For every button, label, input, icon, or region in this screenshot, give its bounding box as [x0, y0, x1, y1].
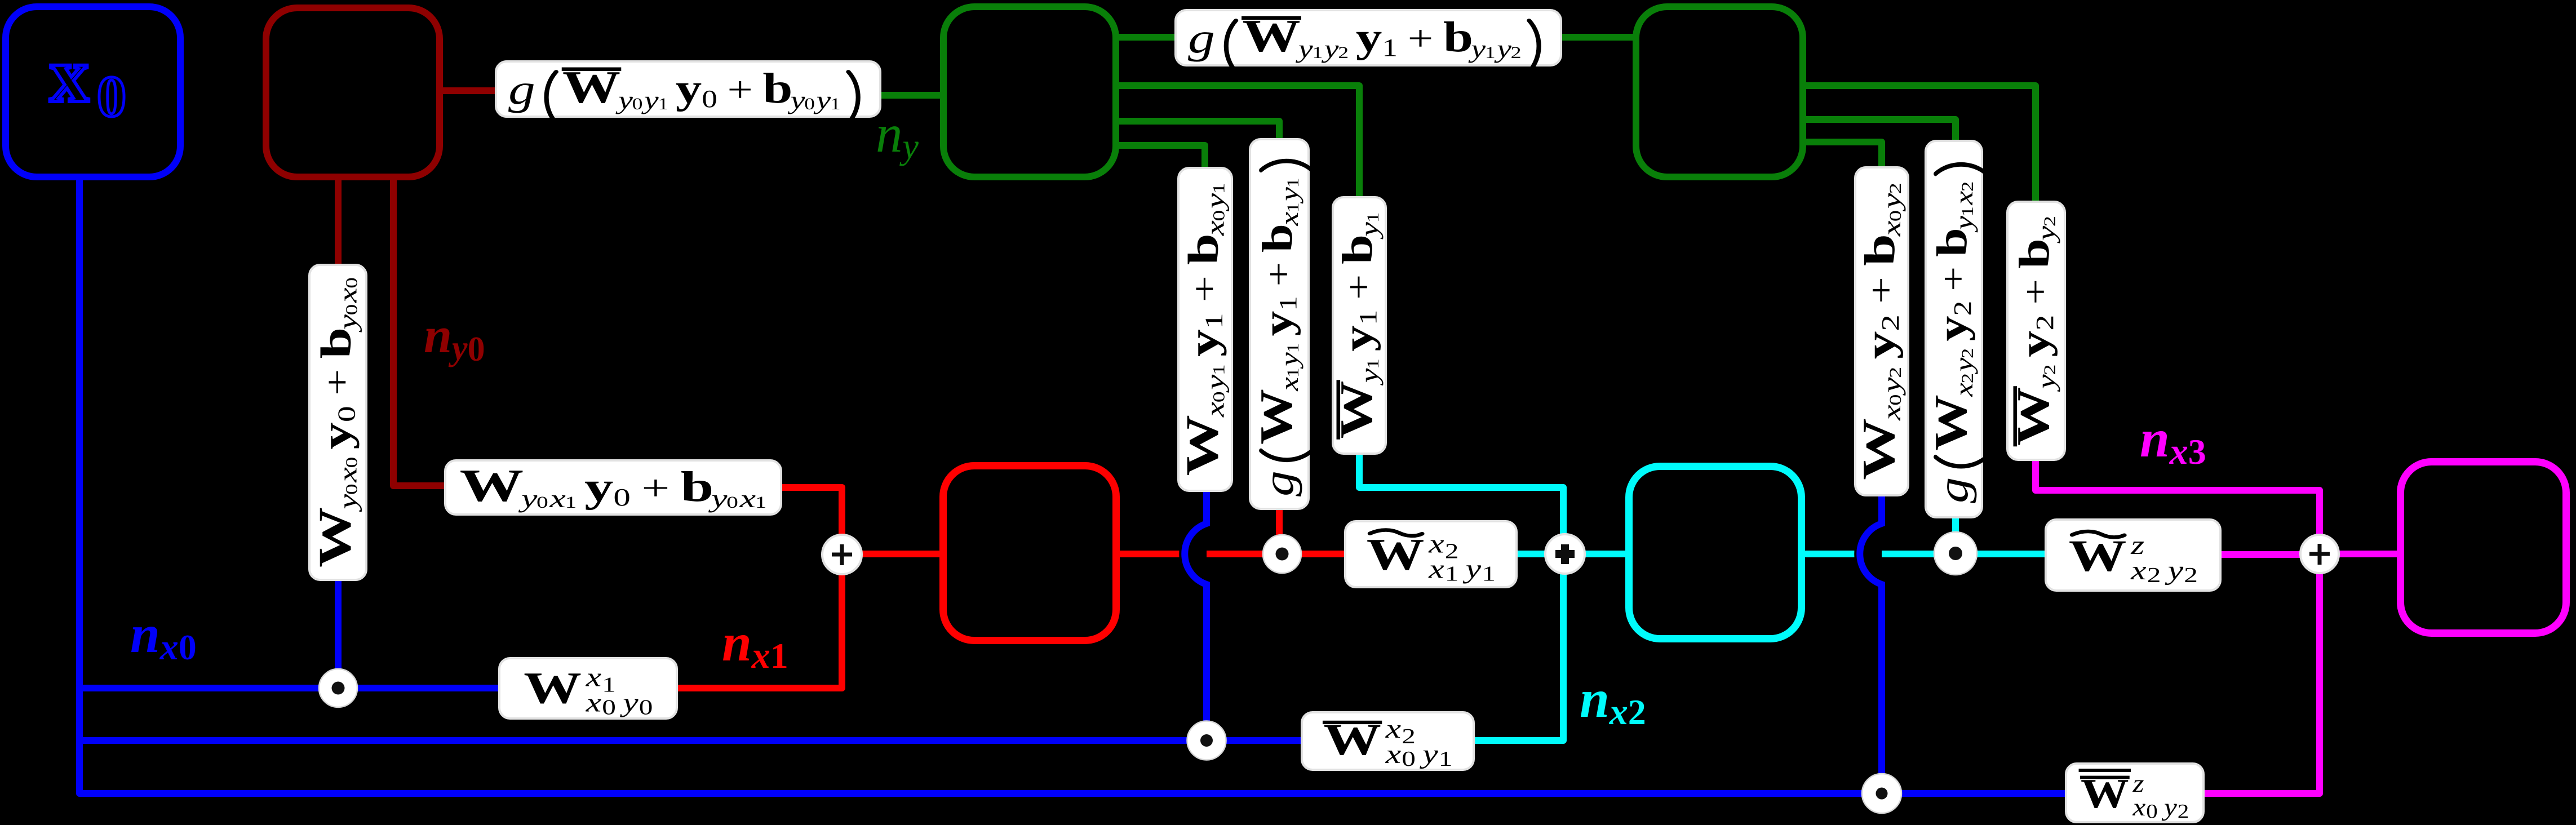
- svg-text:1: 1: [1200, 313, 1228, 329]
- svg-text:y: y: [2032, 374, 2061, 392]
- svg-text:2: 2: [2178, 801, 2189, 823]
- node magenta box (n_x3 layer): [2401, 462, 2566, 633]
- svg-text:y: y: [1950, 216, 1979, 233]
- svg-text:+: +: [641, 468, 670, 508]
- svg-text:y: y: [2162, 793, 2178, 821]
- label Wtilde^z_x2y2: [2046, 520, 2220, 591]
- svg-text:y: y: [1355, 368, 1384, 386]
- node green box 1 (n_y layer): [943, 7, 1116, 177]
- svg-text:+: +: [1338, 274, 1378, 300]
- svg-text:1: 1: [1284, 367, 1302, 378]
- svg-text:b: b: [1180, 233, 1227, 265]
- svg-text:W: W: [524, 663, 582, 713]
- svg-text:y: y: [708, 484, 728, 513]
- svg-text:1: 1: [602, 673, 616, 697]
- svg-text:y: y: [518, 484, 537, 513]
- svg-text:y: y: [1877, 193, 1906, 212]
- svg-text:0: 0: [537, 493, 548, 512]
- svg-text:y: y: [1355, 221, 1384, 239]
- svg-text:2: 2: [2147, 563, 2161, 587]
- wire green box2 to vertical label g(W_x2y2): [1803, 119, 1956, 146]
- svg-text:1: 1: [1209, 364, 1228, 375]
- svg-text:b: b: [1443, 13, 1473, 60]
- svg-text:W: W: [1251, 389, 1302, 445]
- operator plus 1 (red sum): [822, 535, 862, 574]
- svg-text:1: 1: [1312, 44, 1323, 63]
- wire magenta plus 3 to magenta box: [2320, 551, 2400, 557]
- svg-text:n: n: [722, 613, 752, 672]
- svg-text:+: +: [1861, 277, 1901, 304]
- svg-text:y: y: [1462, 554, 1482, 584]
- svg-text:n: n: [424, 308, 452, 363]
- svg-text:x: x: [1275, 377, 1304, 392]
- svg-text:1: 1: [1485, 44, 1496, 63]
- svg-text:x: x: [1275, 212, 1304, 227]
- wire cyan from label g(W_x2y2) down to dot-op cyan: [1952, 508, 1959, 554]
- wire green box1 to vertical label g(W_x1y1): [1116, 121, 1279, 141]
- wire blue branch to dot product 2 (y=1314): [79, 737, 1304, 744]
- label g(W_x1y1 y_1 + b_x1y1) (vertical): [1250, 139, 1309, 509]
- svg-text:0: 0: [342, 484, 361, 495]
- label W_x0y1 y_1 + b_x0y1 (vertical): [1178, 168, 1232, 491]
- svg-text:+: +: [1259, 262, 1298, 286]
- svg-text:b: b: [1333, 234, 1381, 264]
- svg-text:y: y: [1295, 35, 1313, 64]
- svg-text:x: x: [2132, 793, 2145, 821]
- svg-text:1: 1: [1482, 562, 1496, 586]
- wire magenta label Wtilde_z to plus 3: [2218, 551, 2320, 558]
- svg-text:b: b: [1254, 224, 1301, 252]
- wire red n_x1 from label W_x0y0 to plus 1 bottom: [675, 572, 842, 688]
- svg-text:y: y: [584, 464, 613, 511]
- svg-text:0: 0: [726, 493, 738, 512]
- node x0 input box (blue): [6, 7, 180, 177]
- svg-text:1: 1: [770, 636, 788, 676]
- svg-text:y: y: [676, 66, 702, 112]
- label olW_y2 y_2 + b_y2 (vertical): [2007, 202, 2065, 460]
- svg-text:b: b: [762, 64, 792, 112]
- wire green label g1 to green box 1: [878, 92, 947, 99]
- svg-text:3: 3: [2188, 432, 2206, 472]
- svg-text:x: x: [1950, 383, 1979, 397]
- operator dot 1 (blue hadamard): [319, 669, 357, 707]
- svg-text:x: x: [333, 467, 362, 483]
- svg-text:1: 1: [1439, 747, 1453, 770]
- svg-text:1: 1: [1364, 212, 1382, 223]
- svg-text:x: x: [751, 635, 770, 676]
- svg-text:x: x: [1609, 691, 1628, 733]
- wire magenta n_x3 from label Wbarbar_y2 to plus 3 top: [2036, 458, 2320, 554]
- svg-text:2: 2: [1958, 373, 1977, 383]
- svg-text:2: 2: [2184, 563, 2198, 587]
- svg-text:2: 2: [1886, 183, 1905, 194]
- svg-text:n: n: [876, 104, 903, 163]
- wire blue from label W_y0x0 down to dot 1: [335, 578, 342, 688]
- svg-text:y: y: [1950, 357, 1979, 375]
- wire green label g2 to green box 2: [1559, 34, 1636, 41]
- svg-text:y: y: [1321, 35, 1339, 64]
- svg-text:0: 0: [804, 95, 815, 113]
- svg-text:W: W: [309, 507, 361, 567]
- svg-text:y: y: [1275, 187, 1304, 204]
- wire green box2 to vertical label W_x0y2: [1803, 142, 1882, 170]
- svg-text:n: n: [1580, 669, 1610, 729]
- label Wbarbar^z_x0y2: [2066, 764, 2203, 822]
- svg-text:0: 0: [333, 406, 361, 422]
- node red box (n_x1 layer): [943, 466, 1116, 641]
- svg-text:b: b: [1856, 234, 1904, 266]
- svg-text:y: y: [1201, 193, 1230, 212]
- label W^x1_x0y0: [499, 658, 677, 718]
- svg-text:x: x: [2169, 431, 2188, 472]
- svg-text:0: 0: [342, 457, 361, 468]
- svg-text:y: y: [333, 494, 362, 512]
- svg-text:y: y: [2032, 225, 2061, 243]
- svg-text:x: x: [50, 32, 89, 119]
- label W_y0x1 y_0 + b_y0x1: [445, 460, 781, 514]
- svg-text:b: b: [2010, 238, 2058, 269]
- svg-text:1: 1: [658, 95, 668, 113]
- svg-text:2: 2: [1511, 44, 1522, 63]
- svg-text:+: +: [1408, 18, 1433, 58]
- svg-text:2: 2: [2031, 315, 2059, 331]
- svg-text:0: 0: [468, 330, 485, 369]
- label Wtilde^x2_x1y1: [1345, 521, 1517, 587]
- svg-text:y: y: [1254, 311, 1301, 336]
- wire blue n_x0 main vertical + bottom horizontal: [79, 179, 2067, 793]
- svg-text:y: y: [787, 86, 805, 114]
- svg-text:2: 2: [1958, 181, 1977, 192]
- svg-text:2: 2: [2041, 216, 2059, 227]
- operator dot cyan (hadamard): [1934, 532, 1977, 575]
- svg-text:W: W: [1176, 415, 1227, 476]
- svg-text:y: y: [620, 687, 639, 717]
- svg-text:y: y: [1420, 739, 1439, 769]
- svg-text:1: 1: [1284, 178, 1302, 188]
- svg-text:y: y: [899, 126, 919, 166]
- svg-text:x: x: [739, 484, 756, 513]
- svg-text:2: 2: [1877, 314, 1904, 331]
- node cyan box (n_x2 layer): [1629, 467, 1802, 639]
- svg-text:0: 0: [342, 277, 361, 289]
- svg-text:0: 0: [97, 64, 126, 129]
- label W_y0x0 y_0 + b_y0x0 (vertical): [309, 265, 366, 580]
- svg-text:x: x: [1201, 402, 1230, 418]
- svg-text:W: W: [1925, 394, 1976, 451]
- label g(olW_y1y2 y_1 + b_y1y2): [1176, 10, 1561, 65]
- svg-text:2: 2: [1958, 348, 1977, 358]
- svg-text:y: y: [313, 422, 359, 449]
- svg-text:0: 0: [702, 85, 717, 112]
- svg-text:0: 0: [342, 304, 361, 316]
- svg-text:1: 1: [1354, 310, 1381, 326]
- svg-text:0: 0: [1886, 394, 1905, 406]
- svg-text:W: W: [1853, 418, 1904, 480]
- svg-text:x: x: [1950, 190, 1979, 205]
- svg-text:x: x: [549, 484, 566, 513]
- label olW_y1 y_1 + b_y1 (vertical): [1333, 197, 1386, 454]
- svg-text:x: x: [1877, 405, 1906, 421]
- svg-text:g: g: [1255, 471, 1302, 496]
- wire red plus1 to red box: [842, 551, 943, 557]
- wire cyan box to dot-op cyan and label Wtilde_z: [1802, 551, 2048, 557]
- wire cyan from label Wbarbar_y1 to plus 2 top: [1359, 451, 1563, 554]
- operator dot 2 (blue hadamard): [1187, 721, 1226, 760]
- wire red box to dot-op and label Wtilde_x1y1: [1116, 551, 1347, 557]
- svg-text:1: 1: [1209, 183, 1228, 194]
- svg-text:1: 1: [1382, 33, 1398, 61]
- operator plus 3 (magenta sum): [2300, 535, 2339, 573]
- svg-text:y: y: [1356, 15, 1382, 61]
- label g(olW_y0y1 y_0 + b_y0y1): [496, 61, 880, 117]
- wire green box1 to vertical label W_x0y1: [1116, 145, 1205, 170]
- svg-text:b: b: [681, 463, 714, 510]
- svg-text:2: 2: [2041, 364, 2059, 375]
- svg-text:1: 1: [1274, 296, 1302, 311]
- svg-text:y: y: [333, 314, 362, 333]
- svg-text:0: 0: [639, 695, 653, 719]
- svg-text:0: 0: [1209, 391, 1228, 402]
- svg-text:0: 0: [2146, 801, 2158, 823]
- svg-text:+: +: [727, 69, 752, 109]
- svg-text:y: y: [2165, 556, 2184, 586]
- svg-text:y: y: [2012, 331, 2058, 357]
- wire blue from label W_x0y1 down with hop over red to dot 2: [1185, 524, 1207, 584]
- svg-text:1: 1: [830, 95, 841, 113]
- svg-text:1: 1: [755, 493, 767, 512]
- operator dot 3 (blue hadamard): [1862, 774, 1901, 813]
- wire blue branch to dot product 1 (y=1221): [79, 685, 502, 691]
- svg-text:+: +: [1185, 276, 1225, 303]
- label W_x0y2 y_2 + b_x0y2 (vertical): [1855, 167, 1908, 495]
- label g(W_x2y2 y_2 + b_y1x2) (vertical): [1926, 141, 1982, 517]
- svg-text:0: 0: [613, 484, 631, 511]
- wire magenta from label Wbar_z_x0y2 to plus 3 bottom: [2201, 554, 2320, 793]
- svg-text:W: W: [460, 460, 524, 511]
- svg-text:y: y: [1468, 35, 1486, 64]
- svg-text:g: g: [508, 65, 535, 113]
- svg-text:0: 0: [602, 695, 616, 719]
- svg-text:y: y: [1335, 325, 1381, 351]
- svg-text:y: y: [813, 86, 831, 114]
- svg-text:0: 0: [1886, 210, 1905, 221]
- svg-text:+: +: [2015, 279, 2055, 305]
- operator dot red (hadamard): [1263, 535, 1301, 573]
- svg-text:x: x: [1877, 221, 1906, 237]
- wire green box1 to label g2: [1116, 34, 1178, 41]
- svg-text:y: y: [1181, 329, 1227, 357]
- svg-text:1: 1: [1958, 206, 1977, 216]
- svg-text:y: y: [1877, 377, 1906, 396]
- svg-text:0: 0: [632, 95, 643, 113]
- svg-text:n: n: [130, 604, 160, 664]
- wire darkred n_y0 down and right to label W_y0x1: [393, 177, 447, 486]
- operator plus 2 (cyan sum, bold): [1545, 534, 1585, 574]
- svg-text:1: 1: [1284, 343, 1302, 353]
- svg-text:x: x: [159, 627, 179, 668]
- svg-text:2: 2: [1886, 367, 1905, 378]
- wire green box1 to vertical label Wbar_y1: [1116, 86, 1359, 199]
- svg-text:b: b: [1929, 228, 1976, 256]
- svg-text:1: 1: [565, 493, 577, 512]
- wire red label W_y0x1 to plus 1 top: [779, 487, 842, 536]
- svg-text:x: x: [333, 287, 362, 303]
- svg-text:0: 0: [1402, 747, 1416, 770]
- svg-text:+: +: [1933, 267, 1973, 291]
- svg-text:2: 2: [1948, 301, 1976, 316]
- svg-text:x: x: [2130, 556, 2146, 586]
- svg-text:x: x: [1428, 554, 1444, 584]
- svg-text:g: g: [1930, 477, 1978, 503]
- wire darkred box to label g1: [441, 87, 498, 94]
- svg-text:2: 2: [1338, 44, 1349, 63]
- svg-text:n: n: [2140, 409, 2170, 468]
- wire darkred box down to vertical label W_y0x0: [335, 177, 342, 267]
- svg-text:y: y: [1275, 352, 1304, 369]
- svg-text:y: y: [1857, 331, 1903, 360]
- svg-text:1: 1: [1284, 202, 1302, 212]
- wire cyan from label Wbar_x0y1 to plus 2 bottom: [1471, 554, 1563, 740]
- svg-text:y: y: [641, 86, 659, 114]
- svg-text:2: 2: [1402, 725, 1416, 748]
- label Wbar^x2_x0y1: [1302, 712, 1474, 770]
- svg-text:0: 0: [1209, 210, 1228, 221]
- svg-text:0: 0: [179, 627, 197, 667]
- wire red from label g(W_x1y1) down to dot-op: [1276, 507, 1283, 554]
- wire blue from label W_x0y2 down with hop over cyan to dot 3: [1860, 524, 1882, 584]
- wire green box2 to vertical label Wbar_y2: [1803, 86, 2036, 204]
- svg-text:2: 2: [1445, 539, 1459, 563]
- node green box 2: [1636, 7, 1803, 177]
- svg-text:y: y: [615, 86, 633, 114]
- svg-text:+: +: [318, 369, 357, 396]
- svg-text:b: b: [313, 327, 360, 358]
- svg-text:x: x: [586, 687, 601, 717]
- svg-text:1: 1: [1445, 562, 1459, 586]
- svg-text:y: y: [1929, 316, 1975, 341]
- svg-text:y: y: [1494, 35, 1512, 64]
- wire cyan label Wtilde_x1y1 to plus 2: [1514, 551, 1629, 557]
- svg-text:x: x: [1385, 739, 1401, 769]
- svg-text:1: 1: [1364, 358, 1382, 369]
- svg-text:x: x: [1201, 220, 1230, 236]
- svg-text:2: 2: [1628, 692, 1646, 732]
- svg-text:y: y: [1201, 375, 1230, 393]
- svg-text:g: g: [1188, 14, 1215, 61]
- node darkred box (y0 layer): [266, 8, 440, 177]
